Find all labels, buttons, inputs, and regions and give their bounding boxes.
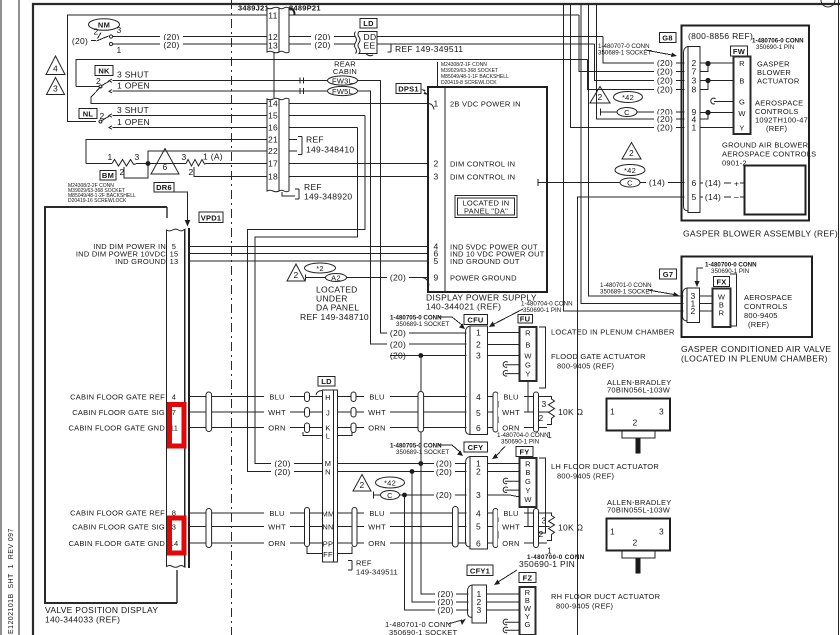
DPS pin9 entry curl (422, 278, 429, 286)
svg-text:LD: LD (321, 377, 332, 386)
resistor 10K (flood) (547, 397, 555, 425)
wire NM loop top (pin 11 row, to G8 pin 7 jog) (68, 15, 580, 41)
svg-text:2: 2 (96, 76, 101, 86)
red highlight box pins 7/11 (170, 405, 185, 447)
svg-text:CFU: CFU (467, 316, 483, 325)
svg-text:J: J (326, 409, 330, 418)
svg-text:(20): (20) (274, 467, 290, 477)
hook stub FU Y (503, 370, 519, 376)
svg-text:W: W (524, 352, 532, 361)
svg-text:ORN: ORN (268, 539, 285, 548)
wires G7 to WBR (700, 295, 713, 297)
wire G8 pin5 down off-sheet (578, 197, 685, 635)
wire NL open to pin 16 (113, 127, 268, 129)
wires CFU 1,2,3 to FU R,B,W (488, 332, 520, 334)
svg-text:(20): (20) (163, 40, 179, 50)
svg-text:NM: NM (98, 21, 110, 30)
svg-text:BLU: BLU (369, 393, 384, 402)
svg-text:3: 3 (476, 490, 481, 500)
svg-text:+: + (734, 179, 739, 189)
svg-text:CABIN FLOOR GATE GND: CABIN FLOOR GATE GND (68, 539, 165, 548)
svg-text:D20419-8 SCREWLOCK: D20419-8 SCREWLOCK (441, 80, 497, 86)
svg-text:G8: G8 (662, 34, 673, 43)
svg-text:140-344033 (REF): 140-344033 (REF) (45, 615, 120, 625)
svg-text:1: 1 (433, 99, 438, 109)
svg-text:2: 2 (538, 529, 543, 539)
shield cluster G8 fan: triangle 2 (622, 143, 641, 160)
svg-text:2B VDC POWER IN: 2B VDC POWER IN (450, 100, 521, 109)
node shield drain (418, 353, 423, 358)
wire G8 1 to Y (700, 127, 734, 129)
wire NM-3 row to connector pin 12 (113, 36, 268, 38)
svg-text:15: 15 (268, 111, 278, 121)
svg-text:MM: MM (322, 510, 335, 519)
svg-text:350689-1 SOCKET: 350689-1 SOCKET (396, 449, 450, 456)
svg-text:FZ: FZ (523, 574, 533, 583)
top-right partial circle (821, 0, 835, 7)
svg-text:G7: G7 (663, 270, 674, 279)
wire IND GROUND to DPS pin 5 (190, 260, 428, 262)
DPS1 pointer arrow (421, 89, 429, 95)
svg-text:4: 4 (172, 393, 176, 402)
connector G8 pin strip (684, 47, 689, 212)
svg-text:C: C (387, 491, 393, 500)
svg-text:350689-1 SOCKET: 350689-1 SOCKET (598, 50, 652, 57)
wire BM loop top to pin 21 (86, 140, 267, 164)
wire DR6 loop to pin 22 (148, 151, 267, 164)
svg-text:11: 11 (268, 11, 277, 21)
svg-text:CFY: CFY (468, 443, 484, 452)
svg-text:2: 2 (629, 148, 634, 158)
FX strip WBR (713, 289, 731, 328)
svg-text:CONTROLS: CONTROLS (744, 302, 788, 311)
hook stub G (711, 98, 734, 104)
svg-text:2: 2 (93, 27, 98, 37)
svg-text:10K Ω: 10K Ω (558, 523, 583, 533)
wire frame feed to G8 pin4 (596, 4, 684, 119)
svg-text:G: G (525, 361, 531, 370)
resistor BM (86, 163, 112, 165)
svg-text:3: 3 (134, 152, 139, 162)
svg-text:3: 3 (172, 523, 176, 532)
svg-text:NL: NL (83, 110, 94, 119)
long shield capsule group2 (453, 507, 459, 548)
svg-text:(20): (20) (657, 123, 673, 133)
svg-text:WHT: WHT (268, 408, 286, 417)
svg-text:BLU: BLU (269, 509, 284, 518)
svg-text:5: 5 (476, 408, 481, 418)
svg-text:1: 1 (476, 328, 481, 338)
wires VPD 8/3/14 to LD MM/NN/PP (190, 512, 323, 514)
wire G8 2/7 tie to R (700, 63, 734, 72)
label LD (318, 377, 335, 387)
svg-text:350690-1 PIN: 350690-1 PIN (756, 44, 794, 51)
svg-text:3489J21: 3489J21 (238, 4, 269, 13)
svg-text:G: G (524, 620, 530, 629)
svg-text:2: 2 (359, 480, 364, 490)
shield cluster G8: triangle 2 (590, 87, 610, 104)
connector DD/EE (358, 31, 377, 53)
svg-text:1: 1 (107, 152, 112, 162)
(20) labels G8 upper (654, 59, 676, 68)
located in panel DA box (455, 196, 517, 218)
svg-text:800-9405 (REF): 800-9405 (REF) (557, 362, 615, 371)
svg-text:2: 2 (476, 340, 481, 350)
oval *2 (305, 263, 336, 273)
wire N drop to CFY1 pin2 (412, 472, 469, 603)
svg-text:7: 7 (172, 408, 176, 417)
red highlight box pins 3/14 (170, 518, 185, 553)
svg-text:NN: NN (322, 523, 333, 532)
switch NM (89, 19, 120, 31)
svg-text:(20): (20) (657, 85, 673, 95)
resistor A (186, 160, 206, 167)
svg-text:1: 1 (610, 527, 615, 537)
svg-text:FW: FW (733, 47, 746, 56)
svg-text:(20): (20) (437, 605, 453, 615)
svg-text:350690-1 PIN: 350690-1 PIN (501, 439, 539, 446)
svg-text:8: 8 (691, 85, 696, 95)
wire LD FF shield tie right + REF 149-349511 bracket (338, 547, 353, 554)
svg-text:2: 2 (633, 538, 638, 548)
svg-text:Y: Y (525, 370, 530, 379)
svg-text:2: 2 (633, 418, 638, 428)
svg-text:9: 9 (433, 273, 438, 283)
svg-text:3: 3 (476, 605, 481, 615)
triangle 6 (151, 149, 179, 175)
svg-text:3 SHUT: 3 SHUT (117, 70, 149, 80)
wire NL shut to pin 15 (113, 115, 268, 117)
svg-text:(20): (20) (390, 273, 406, 283)
svg-text:(14): (14) (705, 192, 721, 202)
FY strip (520, 458, 537, 507)
svg-text:5: 5 (476, 522, 481, 532)
wires CFY 4,5,6 BLU/WHT/ORN to resistor (488, 512, 548, 514)
oval FW3L (328, 76, 358, 85)
svg-text:2: 2 (476, 467, 481, 477)
wire to junction (136, 163, 186, 165)
svg-text:D20419-16 SCREWLOCK: D20419-16 SCREWLOCK (68, 198, 127, 204)
svg-text:ACTUATOR: ACTUATOR (757, 77, 800, 86)
label VPD1 (199, 212, 223, 223)
wire A2 shield to DPS pin 9 (306, 277, 429, 279)
wire FW3L to CFU pin1 (358, 81, 467, 334)
bracket G7 (730, 274, 737, 326)
svg-text:1 OPEN: 1 OPEN (117, 81, 150, 91)
svg-text:17: 17 (268, 159, 278, 169)
svg-text:BLU: BLU (269, 393, 284, 402)
svg-text:1: 1 (691, 123, 696, 133)
node junction at DR6 (146, 161, 151, 166)
svg-text:18: 18 (268, 172, 278, 182)
oval *42 (615, 165, 645, 176)
svg-text:BLU: BLU (369, 509, 384, 518)
connector CFY shell (466, 457, 471, 548)
svg-text:(20): (20) (72, 36, 88, 46)
wires LD H/J/K to CFU 4/5/6 (338, 396, 467, 398)
wire pin13 out to EE (289, 43, 355, 45)
wire LD L shield tie left (303, 432, 323, 436)
svg-text:CABIN: CABIN (333, 67, 357, 76)
wire pin16 out (289, 127, 357, 129)
svg-text:EE: EE (364, 41, 376, 51)
svg-text:(20): (20) (390, 340, 406, 350)
shield cluster DA panel: triangle 2 (287, 264, 305, 281)
shield capsules at LD left (305, 392, 310, 402)
wire G8 3/8 tie to B (700, 81, 734, 90)
label FX (714, 277, 730, 287)
connector G7 pin strip (683, 288, 688, 321)
shield cluster CFY: triangle 2 (353, 475, 371, 492)
svg-text:21: 21 (268, 135, 278, 145)
svg-text:6: 6 (476, 423, 481, 433)
svg-text:AEROSPACE: AEROSPACE (744, 293, 792, 302)
svg-text:2: 2 (433, 159, 438, 169)
ref bracket 149-349511 (388, 44, 392, 52)
DR6 pointer arrow (174, 192, 188, 220)
shield termination C (373, 492, 375, 499)
svg-text:REF: REF (304, 182, 322, 192)
svg-text:13: 13 (268, 41, 278, 51)
resistor BM tap 2 (124, 165, 148, 178)
svg-text:R: R (739, 59, 745, 68)
label LD (360, 19, 377, 29)
svg-text:CFY1: CFY1 (470, 567, 490, 576)
wire CFY 3 to FY W (488, 495, 520, 497)
actuator bracket LH (539, 458, 546, 533)
label FW (731, 46, 748, 56)
svg-text:800-9405: 800-9405 (744, 311, 778, 320)
junction ticks FW5L wire (299, 88, 301, 94)
wire pin15 loop to LD N row (248, 116, 365, 472)
svg-text:W: W (524, 495, 532, 504)
wire DD out to G8 jog (377, 36, 603, 38)
(20) labels G8 lower (654, 108, 676, 117)
dash-dot center line (231, 0, 233, 635)
svg-text:350690-1 SOCKET: 350690-1 SOCKET (389, 628, 458, 635)
svg-text:REF: REF (306, 135, 324, 145)
wire resistor A to pin 17 (206, 163, 267, 165)
svg-text:6: 6 (476, 539, 481, 549)
svg-text:CABIN FLOOR GATE GND: CABIN FLOOR GATE GND (68, 424, 165, 433)
svg-text:(LOCATED IN PLENUM CHAMBER): (LOCATED IN PLENUM CHAMBER) (681, 354, 828, 364)
label DR6 (154, 183, 174, 193)
svg-text:FLOOD GATE ACTUATOR: FLOOD GATE ACTUATOR (551, 352, 646, 361)
VPD box (45, 207, 177, 603)
oval A2 (326, 274, 347, 282)
wire LD L shield tie right (338, 432, 353, 436)
wires CFY 1,2 to FY (488, 463, 520, 465)
ref bracket 149-348920 (282, 192, 295, 196)
svg-text:IND GROUND: IND GROUND (115, 257, 166, 266)
svg-text:L: L (326, 432, 330, 441)
svg-text:4: 4 (53, 64, 58, 74)
long shield capsule group1 (418, 392, 424, 433)
wire pin16 loop to LD M row (255, 128, 357, 464)
svg-text:POWER GROUND: POWER GROUND (450, 274, 517, 283)
svg-text:*42: *42 (624, 166, 636, 175)
svg-text:1: 1 (610, 407, 615, 417)
svg-text:N: N (325, 468, 331, 477)
svg-text:16: 16 (268, 123, 278, 133)
svg-text:6: 6 (162, 162, 167, 172)
svg-text:10K Ω: 10K Ω (558, 407, 583, 417)
wire labels BLU/WHT/ORN (VPD to LD) (264, 392, 290, 401)
svg-text:2: 2 (690, 306, 695, 316)
node N to CFY1 (410, 469, 415, 474)
DPS box (428, 87, 547, 292)
svg-text:1: 1 (116, 45, 121, 55)
svg-text:350689-1 SOCKET: 350689-1 SOCKET (396, 321, 450, 328)
svg-text:ORN: ORN (368, 424, 385, 433)
svg-text:LH FLOOR DUCT ACTUATOR: LH FLOOR DUCT ACTUATOR (551, 462, 659, 471)
svg-text:3: 3 (476, 351, 481, 361)
hook stub FY G (503, 478, 519, 484)
svg-text:FY: FY (519, 448, 529, 457)
svg-text:BLU: BLU (503, 509, 518, 518)
DPS pin 1 entry curl (428, 104, 434, 110)
wire frame feed to G8 pin1 (571, 4, 685, 128)
svg-text:NK: NK (98, 67, 110, 76)
svg-text:(REF): (REF) (766, 124, 787, 133)
shield capsules LD right (351, 392, 356, 402)
wire drain down to capsule (420, 356, 422, 392)
oval FW5L (328, 86, 358, 95)
wire pin17 to DPS pin 2 (289, 163, 428, 165)
svg-text:FF: FF (323, 550, 333, 559)
svg-text:GASPER CONDITIONED AIR VALVE: GASPER CONDITIONED AIR VALVE (681, 344, 831, 354)
twisted pair capsule VPD side (206, 392, 212, 432)
svg-text:(20): (20) (390, 328, 406, 338)
hook stubs FZ (503, 619, 519, 625)
wire DD row jog to G8 pin2 (603, 37, 685, 64)
wire NM-1 row to connector pin 13 (113, 43, 268, 45)
wire C drop to CFY1 pin3 (405, 495, 469, 610)
switch NL (79, 109, 97, 119)
svg-text:2: 2 (597, 92, 602, 102)
svg-text:R: R (525, 329, 531, 338)
svg-text:CABIN FLOOR GATE REF: CABIN FLOOR GATE REF (70, 509, 165, 518)
svg-text:3: 3 (433, 172, 438, 182)
svg-text:LD: LD (363, 19, 374, 28)
svg-text:GASPER BLOWER ASSEMBLY (REF): GASPER BLOWER ASSEMBLY (REF) (683, 229, 838, 239)
svg-text:DA PANEL: DA PANEL (316, 303, 359, 313)
wire pin12 out to DD (289, 36, 355, 38)
svg-text:1 (A): 1 (A) (203, 152, 223, 162)
wire pin18 to DPS pin 3 (289, 176, 428, 178)
label BM (100, 171, 116, 181)
svg-text:ORN: ORN (368, 539, 385, 548)
svg-text:WHT: WHT (368, 523, 386, 532)
svg-text:GROUND AIR BLOWER: GROUND AIR BLOWER (722, 141, 809, 150)
svg-text:CABIN FLOOR GATE SIG: CABIN FLOOR GATE SIG (72, 408, 165, 417)
svg-text:C: C (624, 108, 630, 117)
svg-text:5: 5 (433, 256, 438, 266)
svg-text:C: C (627, 179, 633, 188)
svg-text:3: 3 (659, 407, 664, 417)
wire G8 9/4 tie to W (700, 113, 734, 120)
svg-text:RH FLOOR DUCT ACTUATOR: RH FLOOR DUCT ACTUATOR (551, 592, 661, 601)
svg-text:BM: BM (102, 171, 114, 180)
svg-text:CABIN FLOOR GATE REF: CABIN FLOOR GATE REF (70, 393, 165, 402)
label DPS1 (396, 84, 421, 94)
svg-text:G: G (739, 98, 745, 107)
svg-text:(800-8856 REF): (800-8856 REF) (688, 31, 753, 41)
wire resistor A tap 2 to pin 18 (194, 167, 267, 177)
svg-text:350690-1 PIN: 350690-1 PIN (523, 307, 561, 314)
svg-text:149-348920: 149-348920 (304, 192, 352, 202)
wire pin14 to DPS pin 1 (289, 103, 428, 105)
triangle 4 (46, 56, 65, 75)
wire NK common blade return to pin 14 (91, 87, 267, 104)
wire FY to resistor mid (527, 507, 529, 527)
wire NK shut to FW3L (113, 80, 329, 82)
svg-text:LOCATED IN PLENUM CHAMBER: LOCATED IN PLENUM CHAMBER (551, 328, 675, 337)
connector CFY1 shell (468, 585, 473, 618)
svg-text:REF 149-348710: REF 149-348710 (300, 312, 369, 322)
shield tick (305, 275, 307, 281)
svg-text:3: 3 (659, 527, 664, 537)
hook stub FY Y (503, 487, 519, 493)
svg-text:B: B (525, 468, 530, 477)
wire VPD 7 to LD J (190, 411, 323, 413)
junction ticks FW3L wire (299, 78, 301, 84)
svg-text:WHT: WHT (502, 523, 520, 532)
connector CFU shell (466, 326, 471, 435)
svg-text:4: 4 (476, 509, 481, 519)
feeder verticals from top (564, 4, 684, 311)
connector spec text DPS (437, 62, 439, 86)
svg-text:*2: *2 (316, 264, 324, 273)
svg-text:13: 13 (170, 257, 179, 266)
svg-text:WHT: WHT (268, 523, 286, 532)
svg-text:PANEL "DA": PANEL "DA" (464, 207, 508, 216)
svg-text:ORN: ORN (268, 424, 285, 433)
oval *42 (376, 477, 405, 488)
svg-text:FX: FX (716, 278, 726, 287)
oval *42 (614, 92, 643, 103)
FU strip (520, 327, 537, 381)
wire LD FF shield tie left (307, 547, 323, 554)
svg-text:VALVE POSITION DISPLAY: VALVE POSITION DISPLAY (45, 605, 158, 615)
svg-text:2: 2 (538, 413, 543, 423)
svg-text:B: B (525, 341, 530, 350)
svg-text:CABIN FLOOR GATE SIG: CABIN FLOOR GATE SIG (72, 523, 165, 532)
svg-text:E1202101B SHT 1 REV 097: E1202101B SHT 1 REV 097 (8, 528, 15, 634)
wire pin15 out (289, 115, 365, 117)
svg-text:3: 3 (116, 25, 121, 35)
wire IND DIM POWER 10VDC to DPS pin 6 (190, 253, 428, 255)
svg-text:G: G (525, 477, 531, 486)
svg-text:(20): (20) (436, 467, 452, 477)
switch NK loop top wire (to G8 pin 8 jog) (76, 60, 588, 87)
svg-text:PP: PP (323, 540, 334, 549)
svg-text:WHT: WHT (368, 408, 386, 417)
svg-text:(REF): (REF) (748, 320, 769, 329)
svg-text:70BIN056L-103W: 70BIN056L-103W (607, 386, 671, 395)
wire FU to resistor mid (527, 381, 529, 412)
svg-text:6: 6 (691, 178, 696, 188)
svg-text:ORN: ORN (502, 539, 519, 548)
svg-text:3 SHUT: 3 SHUT (117, 105, 149, 115)
svg-text:5: 5 (691, 192, 696, 202)
wire EE out to G8 jog (377, 43, 595, 45)
wire VPD 4 to LD H (190, 396, 323, 398)
FZ strip (520, 587, 536, 635)
wire EE row jog to G8 pin3 (594, 44, 684, 81)
svg-text:149-348410: 149-348410 (306, 145, 354, 155)
svg-text:H: H (325, 393, 331, 402)
